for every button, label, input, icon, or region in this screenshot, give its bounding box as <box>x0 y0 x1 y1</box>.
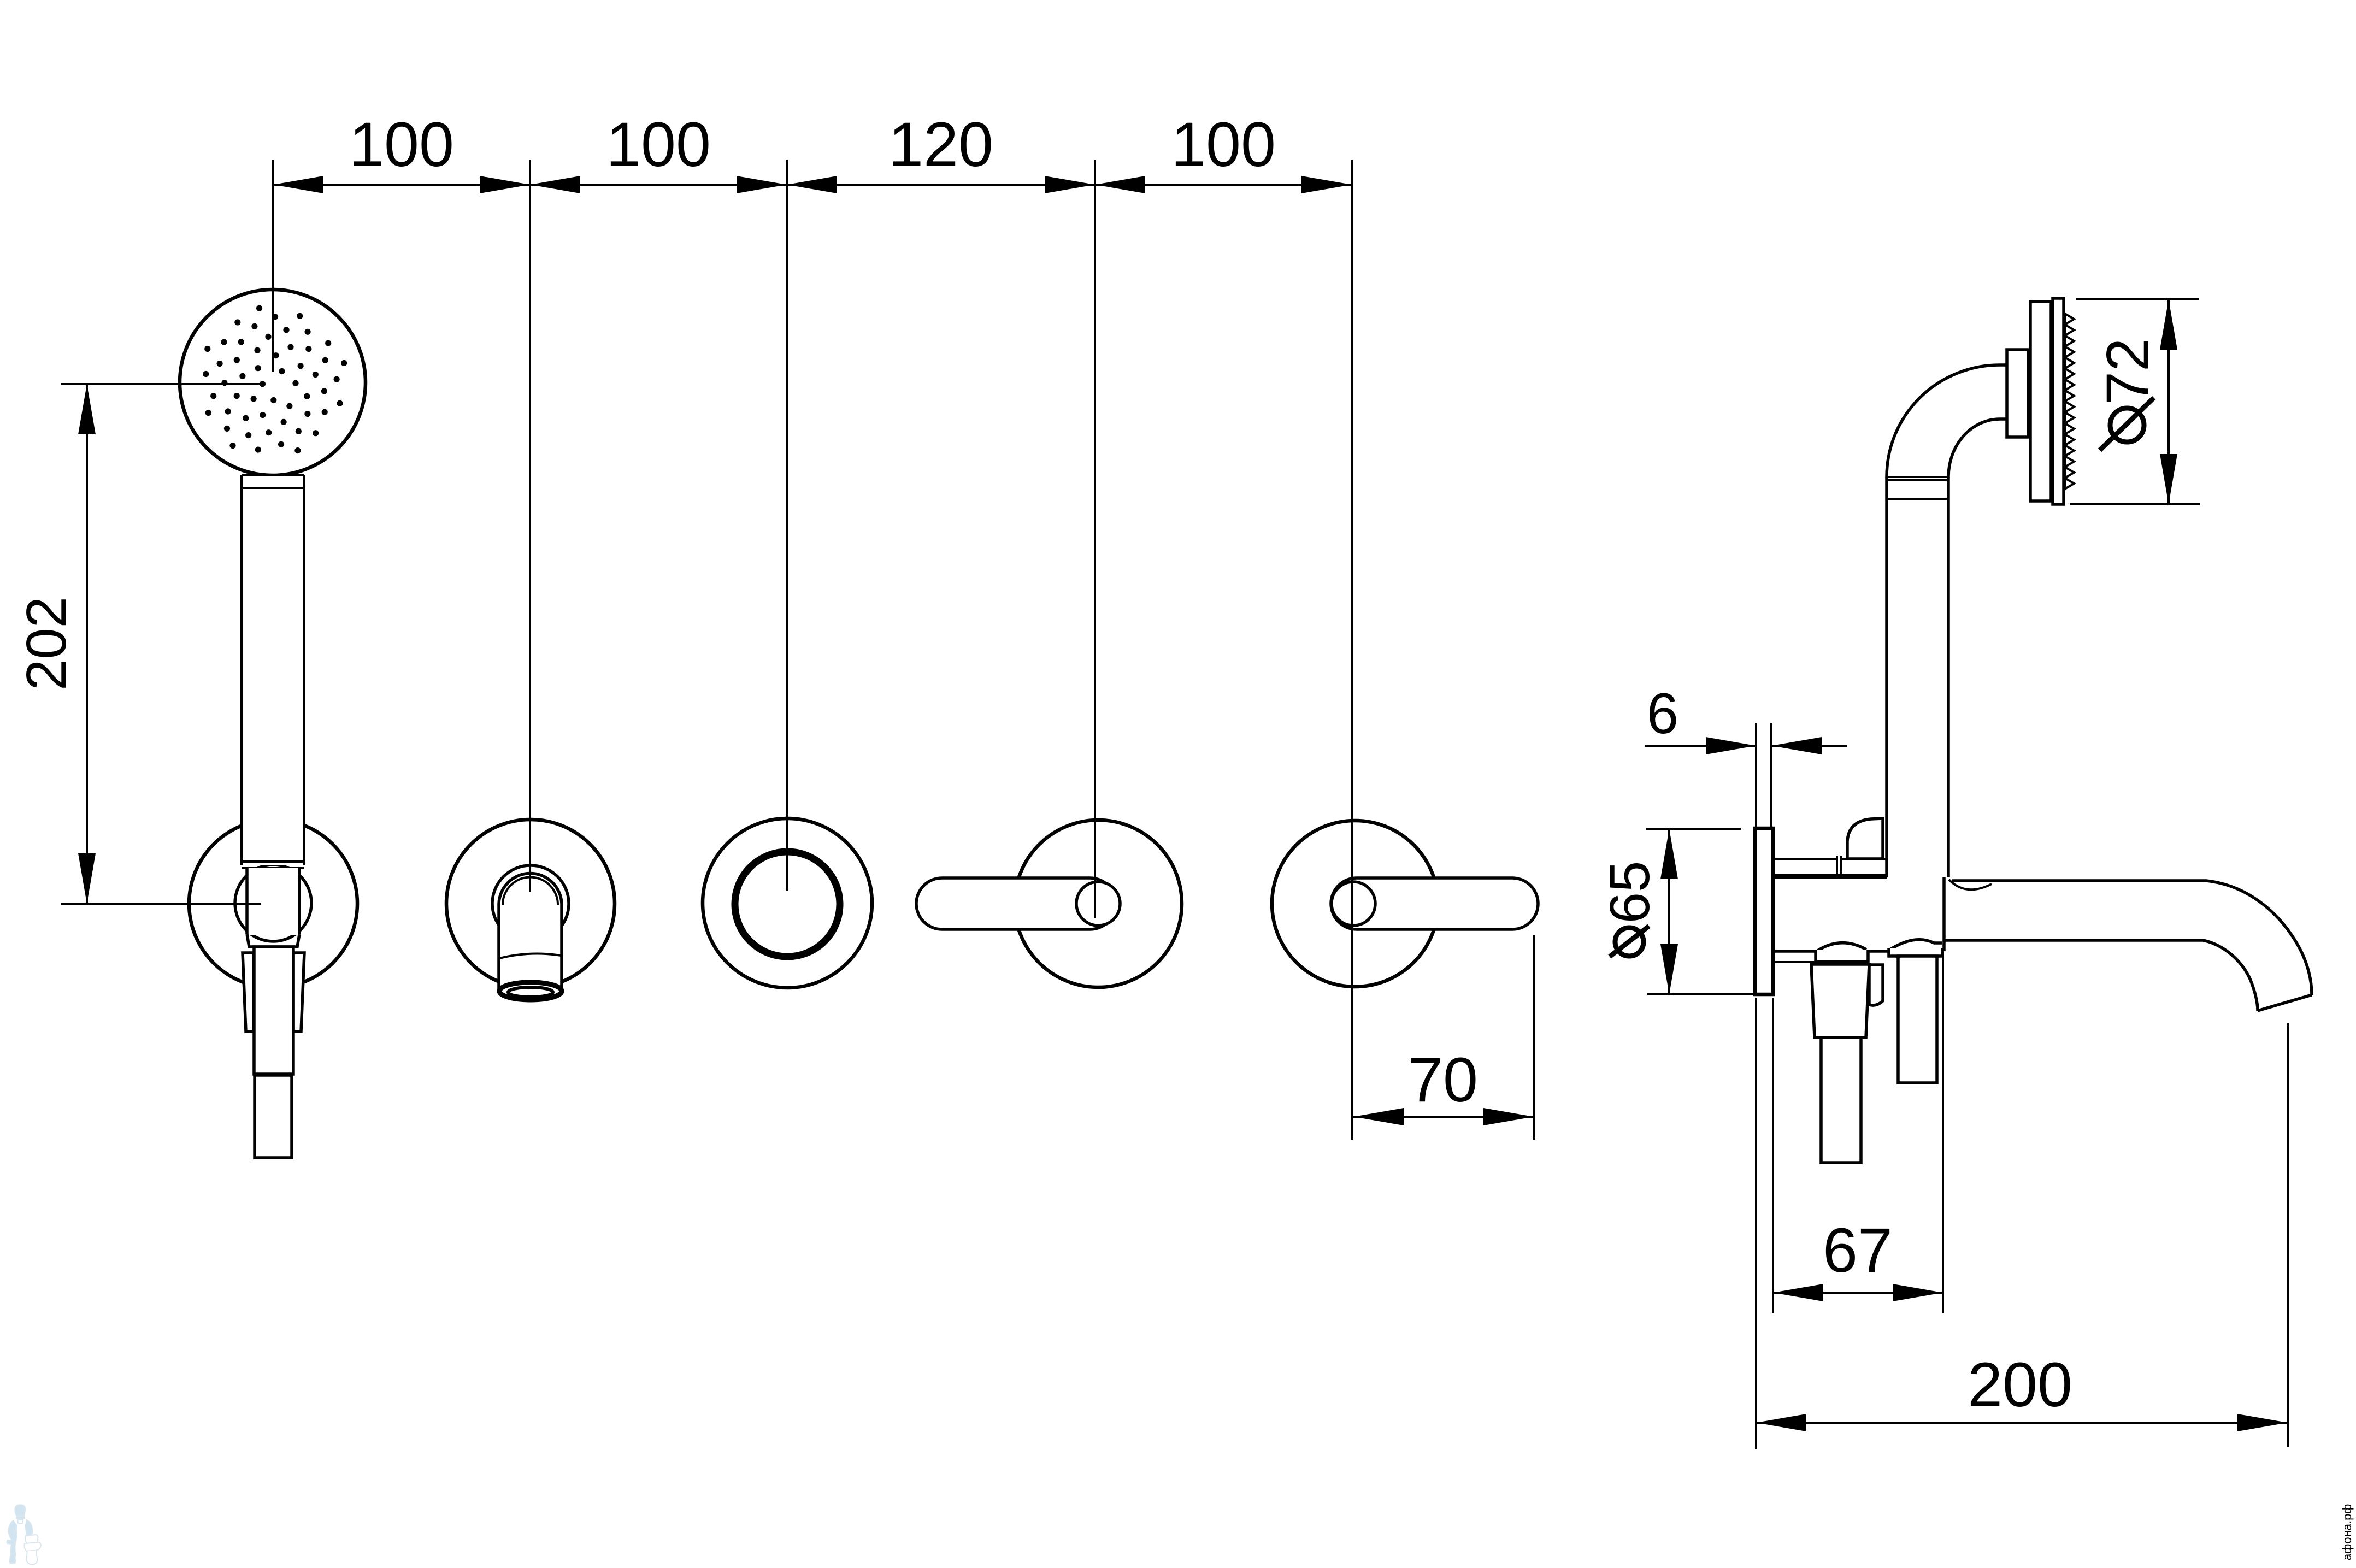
svg-text:70: 70 <box>1408 1045 1478 1115</box>
svg-text:65: 65 <box>1598 861 1661 924</box>
svg-text:6: 6 <box>1647 682 1678 746</box>
svg-text:200: 200 <box>1968 1350 2072 1420</box>
svg-text:120: 120 <box>888 110 993 180</box>
svg-text:202: 202 <box>15 597 78 691</box>
svg-text:100: 100 <box>606 110 711 180</box>
svg-text:афона.рф: афона.рф <box>2340 1504 2354 1560</box>
svg-text:72: 72 <box>2094 338 2161 405</box>
svg-text:100: 100 <box>1171 110 1276 180</box>
svg-text:100: 100 <box>349 110 454 180</box>
svg-text:67: 67 <box>1823 1216 1893 1286</box>
